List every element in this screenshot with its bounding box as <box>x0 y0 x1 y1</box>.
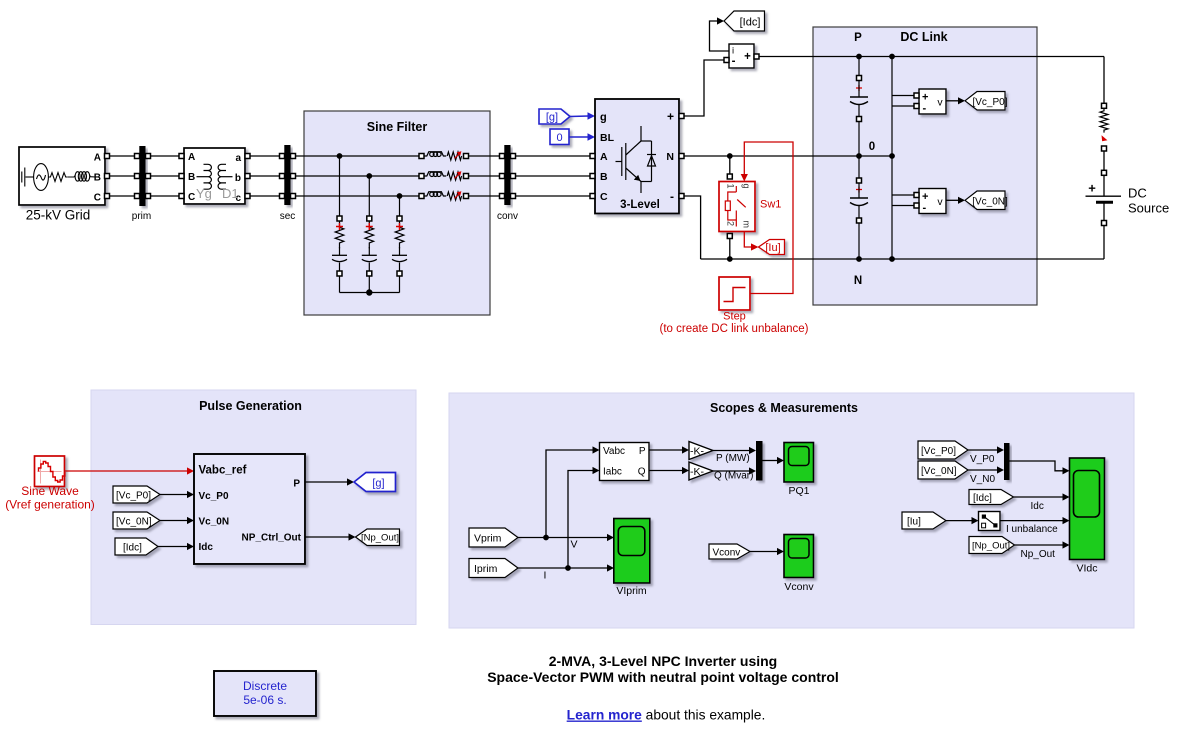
wire i signal to [Idc] <box>710 17 730 51</box>
scope Vconv <box>784 535 814 594</box>
svg-text:-K-: -K- <box>690 466 705 478</box>
wire Sw1 m to [Iu] (red) <box>744 232 758 251</box>
svg-text:1: 1 <box>726 184 736 189</box>
svg-text:[Vc_0N]: [Vc_0N] <box>921 466 957 477</box>
svg-text:5e-06 s.: 5e-06 s. <box>243 693 286 707</box>
svg-text:[Idc]: [Idc] <box>973 493 992 504</box>
wire P to gain1 <box>649 446 689 453</box>
area DC Link panel <box>813 27 1037 305</box>
svg-text:0: 0 <box>869 141 875 153</box>
svg-text:0: 0 <box>556 132 562 144</box>
series RL branch phase A <box>419 151 469 160</box>
wire Iprim to VIprim (I) <box>518 564 614 571</box>
shunt RC branch 3 <box>392 193 407 292</box>
area Sine Filter panel <box>304 111 490 315</box>
svg-text:PQ1: PQ1 <box>788 485 809 497</box>
wire VM1 v to [Vc_P0] <box>946 97 965 104</box>
wire I unbalance to VIdc <box>1000 517 1070 524</box>
wire N rail <box>701 258 1104 260</box>
svg-text:N: N <box>666 151 674 163</box>
junction N rail at cap branch <box>856 256 862 262</box>
junction 0 rail at Sw1 <box>727 153 733 159</box>
svg-text:Q (Mvar): Q (Mvar) <box>714 471 753 482</box>
svg-text:[Idc]: [Idc] <box>740 17 761 29</box>
svg-text:I unbalance: I unbalance <box>1006 524 1058 535</box>
svg-text:Yg: Yg <box>196 186 212 201</box>
svg-text:C: C <box>600 191 608 203</box>
svg-text:[Np_Out]: [Np_Out] <box>361 533 399 544</box>
svg-text:Sine Wave: Sine Wave <box>21 484 79 498</box>
source block 25-kV Grid <box>19 147 110 223</box>
subsystem Vabc_ref <box>194 454 305 564</box>
converter block 3-Level <box>590 99 684 214</box>
area Scopes & Measurements panel <box>449 393 1134 628</box>
voltage measurement VM1 <box>914 89 946 115</box>
svg-text:Idc: Idc <box>1031 501 1044 512</box>
mux PQ <box>756 441 763 481</box>
goto tag [Iu] (red) <box>759 240 785 255</box>
svg-text:conv: conv <box>497 211 518 222</box>
goto tag [Vc_P0] <box>965 92 1008 111</box>
svg-text:Scopes & Measurements: Scopes & Measurements <box>710 401 858 415</box>
svg-text:-: - <box>923 103 927 115</box>
svg-text:25-kV Grid: 25-kV Grid <box>26 208 91 223</box>
junction P rail at VM feed <box>889 54 895 60</box>
discrete solver block <box>214 671 316 716</box>
wire Vprim to VIprim (V) <box>518 534 614 541</box>
svg-text:3-Level: 3-Level <box>620 199 660 211</box>
svg-text:-: - <box>732 56 736 68</box>
junction P rail at cap branch <box>856 54 862 60</box>
svg-text:Source: Source <box>1128 201 1169 216</box>
svg-text:(Vref generation): (Vref generation) <box>5 498 95 512</box>
junction shunt common <box>366 289 372 295</box>
svg-text:[Vc_P0]: [Vc_P0] <box>116 491 151 502</box>
capacitor C1 (P-0) <box>850 57 868 157</box>
junction N rail at Sw1 <box>727 256 733 262</box>
wire BL signal (blue) <box>569 133 595 140</box>
transformer Yg-D1 <box>179 148 250 204</box>
svg-text:Pulse Generation: Pulse Generation <box>199 399 302 413</box>
from tag [Vc_0N] (pulse gen) <box>113 512 160 529</box>
wire 3-Level - to N rail <box>684 196 701 259</box>
svg-text:VIdc: VIdc <box>1076 563 1097 575</box>
svg-text:DC Link: DC Link <box>900 30 947 44</box>
current measurement I1 <box>724 44 759 68</box>
svg-text:-: - <box>670 190 674 204</box>
svg-text:C: C <box>94 193 101 204</box>
scope VIdc <box>1070 458 1105 575</box>
svg-text:[Vc_P0]: [Vc_P0] <box>921 446 956 457</box>
svg-text:DC: DC <box>1128 186 1147 201</box>
svg-text:-: - <box>923 202 927 214</box>
svg-text:Idc: Idc <box>199 542 214 553</box>
junction V <box>543 535 549 541</box>
wire V_N0 to mux2 <box>968 466 1004 473</box>
svg-text:B: B <box>600 171 608 183</box>
svg-text:Vabc_ref: Vabc_ref <box>199 465 247 477</box>
from tag [Np_Out] (scopes) <box>969 537 1015 554</box>
power measurement block <box>600 443 650 481</box>
svg-text:m: m <box>742 221 752 229</box>
gain -K- (P MW) <box>689 442 713 460</box>
svg-text:[Iu]: [Iu] <box>907 517 921 528</box>
svg-text:[Vc_0N]: [Vc_0N] <box>972 197 1008 208</box>
wire [Vc_P0] to Vabc_ref <box>160 491 194 498</box>
wire 0 rail (3-Level N into DC Link) <box>684 155 892 157</box>
svg-text:2: 2 <box>726 221 736 226</box>
gain -K- (Q Mvar) <box>689 462 713 480</box>
from tag Iprim <box>469 559 518 578</box>
svg-text:C: C <box>188 192 195 203</box>
svg-text:g: g <box>600 112 607 124</box>
svg-text:A: A <box>600 151 608 163</box>
svg-text:V_N0: V_N0 <box>970 474 995 485</box>
svg-text:sec: sec <box>280 211 296 222</box>
svg-text:[g]: [g] <box>546 112 558 124</box>
scope PQ1 <box>784 443 814 498</box>
switch Sw1 <box>719 182 781 232</box>
svg-text:D1: D1 <box>222 186 239 201</box>
from tag Vconv <box>709 544 750 559</box>
wire Np_Out to VIdc <box>1015 541 1070 548</box>
svg-text:Step: Step <box>723 311 746 323</box>
svg-text:[Np_Out]: [Np_Out] <box>972 541 1010 552</box>
svg-text:-K-: -K- <box>690 445 705 457</box>
bus bar sec <box>280 145 296 222</box>
svg-text:g: g <box>742 184 752 189</box>
wire mux2 to VIdc <box>1010 461 1070 474</box>
svg-text:V_P0: V_P0 <box>970 454 995 465</box>
svg-text:P: P <box>293 479 300 490</box>
svg-text:Vconv: Vconv <box>713 548 741 559</box>
wire P to [g] <box>305 478 354 485</box>
wire grid A to prim <box>110 155 135 157</box>
svg-text:P (MW): P (MW) <box>716 453 750 464</box>
capacitor C2 (0-N) <box>850 156 868 259</box>
svg-text:N: N <box>854 275 862 287</box>
wire Step to Sw1 g (red) <box>741 142 793 294</box>
voltage measurement VM2 <box>914 189 946 215</box>
svg-text:[Vc_P0]: [Vc_P0] <box>972 97 1007 108</box>
wire VM1 - feed to 0 rail <box>892 105 914 107</box>
wire grid C to prim <box>110 195 135 197</box>
svg-text:VIprim: VIprim <box>616 585 647 597</box>
svg-text:+: + <box>744 51 751 63</box>
shunt RC branch 2 <box>362 173 377 292</box>
svg-text:Space-Vector PWM with neutral: Space-Vector PWM with neutral point volt… <box>487 669 839 685</box>
series RL branch phase C <box>419 191 469 200</box>
goto tag [Vc_0N] <box>965 191 1008 210</box>
svg-text:NP_Ctrl_Out: NP_Ctrl_Out <box>242 533 302 544</box>
svg-text:prim: prim <box>132 211 151 222</box>
svg-text:Sw1: Sw1 <box>760 199 781 211</box>
svg-text:Iprim: Iprim <box>474 563 498 575</box>
svg-text:P: P <box>639 446 646 457</box>
from tag [Vc_0N] (scopes) <box>918 461 968 479</box>
battery DC Source <box>1086 170 1170 259</box>
svg-text:Vabc: Vabc <box>603 446 625 457</box>
svg-text:+: + <box>1088 181 1096 196</box>
svg-text:(to create DC link unbalance): (to create DC link unbalance) <box>660 323 809 335</box>
wire shunt common bus <box>340 292 400 294</box>
wire V_P0 to mux2 <box>968 446 1004 453</box>
wire Sw1 port 2 to N rail <box>727 234 732 239</box>
svg-text:A: A <box>94 153 101 164</box>
svg-text:v: v <box>937 196 943 208</box>
wire [Iu] to rate transition <box>946 517 979 524</box>
wire VM2 - feed to N rail <box>892 205 914 207</box>
wire Vref to Vabc_ref (red) <box>65 467 195 474</box>
wire Idc to VIdc <box>1014 493 1070 500</box>
svg-text:[Idc]: [Idc] <box>123 543 142 554</box>
wire g signal (blue) <box>570 112 595 119</box>
goto tag [Np_Out] <box>356 529 400 546</box>
area Pulse Generation panel <box>91 390 416 625</box>
svg-text:a: a <box>235 153 241 164</box>
goto tag [g] (blue) <box>354 473 396 492</box>
wire sec to series RL branches (3 phases) <box>296 156 420 196</box>
wire grid B to prim <box>110 175 135 177</box>
wire gain1 to mux <box>713 447 756 454</box>
svg-text:+: + <box>667 110 674 124</box>
from tag [g] (top) <box>539 109 570 124</box>
svg-text:A: A <box>188 152 195 163</box>
from tag [Vc_P0] (scopes) <box>918 441 968 459</box>
svg-text:[g]: [g] <box>372 478 384 490</box>
from tag [Idc] (pulse gen) <box>115 538 158 555</box>
junction N rail at VM feed <box>889 256 895 262</box>
svg-text:Iabc: Iabc <box>603 466 622 477</box>
svg-text:B: B <box>188 172 195 183</box>
wire P rail (current meas + to DC source) <box>759 56 1104 58</box>
svg-text:v: v <box>937 97 943 109</box>
from tag Vprim <box>469 528 518 547</box>
wire Q to gain2 <box>649 467 689 474</box>
svg-text:P: P <box>854 32 862 44</box>
svg-text:[Iu]: [Iu] <box>765 242 780 254</box>
bus bar prim <box>132 146 151 222</box>
step source Step <box>660 277 809 335</box>
svg-text:b: b <box>235 173 241 184</box>
series RL branch phase B <box>419 171 469 180</box>
mux V <box>1004 443 1010 480</box>
svg-text:B: B <box>94 173 101 184</box>
source Sine Wave (Vref generation) <box>5 456 95 512</box>
svg-text:Np_Out: Np_Out <box>1021 549 1056 560</box>
wire [Idc] to Vabc_ref <box>158 543 194 550</box>
svg-text:Discrete: Discrete <box>243 679 287 693</box>
shunt RC branch 1 <box>332 153 347 292</box>
svg-text:2-MVA, 3-Level NPC Inverter us: 2-MVA, 3-Level NPC Inverter using <box>549 653 777 669</box>
svg-text:Learn more about this example.: Learn more about this example. <box>567 708 766 723</box>
wire 3-Level + to current meas - <box>684 60 724 116</box>
svg-text:[Vc_0N]: [Vc_0N] <box>116 517 152 528</box>
resistor Rdc <box>1100 57 1108 171</box>
wire mux to PQ1 <box>763 457 785 464</box>
goto tag [Idc] (top) <box>724 11 765 31</box>
wire transformer to sec (3 phases) <box>250 156 280 196</box>
wire conv to 3-Level (3 phases) <box>516 156 591 196</box>
svg-text:I: I <box>544 570 547 582</box>
svg-text:Vc_P0: Vc_P0 <box>199 491 229 502</box>
svg-text:BL: BL <box>600 132 615 144</box>
constant 0 <box>550 129 569 145</box>
svg-text:Q: Q <box>638 466 646 477</box>
title annotation <box>487 653 839 685</box>
wire VM2 + feed from 0 rail <box>891 156 893 259</box>
junction 0 rail at VM feed <box>889 153 895 159</box>
wire VM2 v to [Vc_0N] <box>946 197 965 204</box>
svg-text:V: V <box>571 539 578 551</box>
svg-text:Vprim: Vprim <box>474 533 502 545</box>
wire gain2 to mux <box>713 467 756 474</box>
svg-text:Vc_0N: Vc_0N <box>199 517 230 528</box>
bus bar conv <box>497 145 518 222</box>
svg-text:Vconv: Vconv <box>784 581 814 593</box>
wire [Vc_0N] to Vabc_ref <box>160 517 194 524</box>
scope VIprim <box>614 519 650 598</box>
IGBT with antiparallel diode icon <box>616 126 657 193</box>
wire VM1 + feed from P rail <box>891 57 893 157</box>
wire V up to power meas Vabc <box>546 446 600 537</box>
from tag [Iu] (scopes) <box>902 512 946 529</box>
wire RL outputs to conv (3 phases) <box>469 156 500 196</box>
junction I <box>565 565 571 571</box>
rate transition block <box>979 512 1001 531</box>
from tag [Vc_P0] (pulse gen) <box>113 486 160 503</box>
wire Vconv to scope <box>750 548 784 555</box>
wire I up to power meas Iabc <box>568 467 600 568</box>
wire prim to transformer (3 phases) <box>151 156 180 196</box>
from tag [Idc] (scopes) <box>969 490 1014 505</box>
svg-text:Sine Filter: Sine Filter <box>367 120 428 134</box>
wire NP_Ctrl_Out to [Np_Out] <box>305 533 356 540</box>
wire 0 rail to Sw1 port 1 <box>729 156 731 174</box>
junction 0 rail at cap branch <box>856 153 862 159</box>
